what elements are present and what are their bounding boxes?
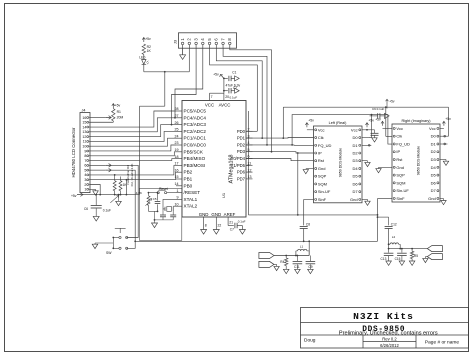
M2 left pin Sin-UF — [393, 188, 409, 193]
svg-text:GND: GND — [199, 212, 209, 217]
svg-text:Clk: Clk — [396, 134, 402, 139]
junction pin4 PC4 — [174, 117, 176, 119]
wire C8 down — [303, 229, 305, 242]
svg-text:0.1uF: 0.1uF — [230, 95, 238, 99]
ground at C7 — [239, 226, 245, 235]
svg-text:22: 22 — [218, 224, 222, 228]
M2 right pin D4 — [431, 165, 439, 170]
svg-text:PC5/ADC5: PC5/ADC5 — [184, 109, 207, 114]
junction C12 node — [388, 243, 390, 245]
M1 left pin Rst — [315, 158, 325, 163]
M1 left pin SQP — [315, 174, 327, 179]
U1 right pin 11 T1/PD5 — [231, 162, 253, 168]
inductor L1 — [296, 245, 309, 256]
ground reset cluster — [152, 223, 158, 228]
U1 left pin 27 PC4/ADC4 — [175, 114, 207, 120]
label 9850 DDS Module left — [339, 148, 343, 177]
J4 pin 5 — [84, 168, 90, 172]
M2 D0 wire right — [440, 135, 449, 137]
junction pot gnd — [118, 194, 120, 196]
junction filter R in — [388, 248, 390, 250]
label ATMega168 — [229, 155, 235, 184]
M1 left pin IP — [315, 150, 322, 155]
M2 right pin Gnd — [428, 196, 439, 201]
svg-text:6/26/2012: 6/26/2012 — [380, 343, 399, 348]
reset group box — [139, 188, 181, 240]
label J3 — [173, 39, 178, 44]
junction SW top — [112, 237, 114, 239]
note install either — [126, 165, 130, 185]
svg-text:Vcc: Vcc — [429, 126, 436, 131]
power +5v M1 right — [362, 119, 375, 131]
svg-text:+5v: +5v — [368, 119, 374, 123]
M1 right pin D4 — [352, 166, 360, 171]
svg-text:SW: SW — [106, 251, 112, 255]
label U1 — [221, 192, 226, 198]
junction C11 — [297, 255, 299, 257]
power +5v for LED — [142, 37, 151, 42]
svg-text:D2: D2 — [431, 149, 437, 154]
M2 right pin Vcc — [429, 126, 439, 131]
capacitor C5 — [153, 193, 161, 212]
M1 left pin Vcc — [315, 127, 325, 132]
junction R3 top — [148, 192, 150, 194]
wire overroute drop right D0 — [448, 107, 450, 136]
svg-text:Sin-UF: Sin-UF — [396, 188, 409, 193]
svg-text:9850 DDS Module: 9850 DDS Module — [417, 146, 421, 175]
U1 left pin 23 PC0/ADC0 — [175, 141, 207, 147]
wire loop to IP — [297, 153, 299, 216]
junction L2 right — [399, 248, 401, 250]
svg-text:SQP: SQP — [318, 174, 327, 179]
wire J3 pin5 to PD0 — [210, 49, 258, 132]
svg-text:D4: D4 — [352, 166, 358, 171]
wire J4 pin10 to U1 — [90, 138, 176, 146]
svg-text:PC2/ADC2: PC2/ADC2 — [184, 129, 207, 134]
U1 right pin 6 T0/PD4 — [231, 155, 253, 161]
page name — [425, 340, 459, 346]
ground right at C1 — [235, 76, 240, 81]
svg-text:SQM: SQM — [318, 181, 327, 186]
svg-text:LED: LED — [139, 55, 146, 59]
svg-text:D7: D7 — [431, 188, 437, 193]
wire PD2 to FQ_UD — [246, 144, 314, 146]
svg-text:PC1/ADC1: PC1/ADC1 — [184, 136, 207, 141]
J4 pin 9 — [84, 149, 90, 153]
M2 right pin D5 — [431, 173, 439, 178]
M1 left pin SinF — [315, 197, 327, 202]
wire filter rail right — [389, 248, 428, 250]
junction C5 bottom — [157, 211, 159, 213]
svg-text:Page # or name: Page # or name — [425, 340, 459, 346]
svg-text:Gnd: Gnd — [318, 166, 326, 171]
U1 pin22 GND — [216, 217, 221, 230]
junction xtal rail — [154, 219, 156, 221]
U1 left pin 19 PB5/SCK — [175, 148, 204, 154]
U1 left pin 18 PB4/MISO — [175, 155, 206, 161]
svg-text:16: 16 — [82, 116, 86, 120]
M1 right pin D2 — [352, 150, 360, 155]
svg-text:GND: GND — [211, 212, 221, 217]
svg-text:PD0: PD0 — [237, 129, 246, 134]
wire J4 pin3 to PB2 — [90, 172, 176, 180]
svg-text:23: 23 — [175, 141, 179, 145]
wire SW to ground — [95, 243, 113, 244]
M1 left pin Sin-UF — [315, 189, 331, 194]
svg-text:L2: L2 — [392, 235, 396, 239]
ground at R5 — [409, 261, 415, 265]
svg-text:SQP: SQP — [396, 173, 405, 178]
ground at R4 — [283, 269, 289, 273]
U1 left pin 24 PC1/ADC1 — [175, 134, 207, 140]
svg-text:18: 18 — [175, 155, 179, 159]
output flag right top — [427, 246, 442, 252]
capacitor C1 47uF — [224, 71, 237, 82]
capacitor C7 — [230, 220, 246, 232]
svg-text:17: 17 — [175, 162, 179, 166]
M2 left pin SQP — [393, 173, 405, 178]
wire J4 pin7 to PB4 — [90, 159, 176, 161]
wire J3 pin6 to PD1 bus — [216, 49, 262, 139]
wire overroute drop left D0 — [368, 115, 371, 138]
junction PD2 bus — [266, 144, 268, 146]
svg-text:16: 16 — [175, 168, 179, 172]
svg-text:IP: IP — [396, 149, 400, 154]
svg-text:D1: D1 — [431, 141, 437, 146]
ground at J3 pin1 — [180, 55, 186, 60]
wire M1 SinF down — [303, 199, 305, 225]
wire +5v riser — [139, 106, 141, 194]
wire J4 pin14 to U1 — [90, 111, 176, 127]
M2 right pin D7 — [431, 188, 439, 193]
junction C8 bus — [303, 240, 305, 242]
M1 left pin Clk — [315, 135, 324, 140]
M1 right pin D0 — [352, 135, 360, 140]
svg-text:PD3: PD3 — [237, 149, 246, 154]
LED D1 — [142, 55, 149, 72]
svg-text:+5v: +5v — [308, 119, 314, 123]
label Right (Imaginary) — [401, 119, 431, 123]
svg-text:7: 7 — [84, 159, 86, 163]
U1 bottom labels GND GND AREF — [199, 212, 236, 217]
capacitor C15 — [395, 249, 407, 262]
capacitor C9b — [306, 256, 316, 270]
junction LED wire — [164, 71, 166, 73]
capacitor C8 — [300, 222, 311, 228]
label C6 0.1uF — [84, 207, 111, 213]
svg-text:15: 15 — [175, 175, 179, 179]
wire XTAL2 — [173, 205, 176, 208]
svg-text:PC0/ADC0: PC0/ADC0 — [184, 143, 207, 148]
M2 left pin IP — [393, 149, 400, 154]
svg-text:Doug: Doug — [304, 338, 316, 344]
svg-text:10: 10 — [82, 144, 86, 148]
svg-text:VCC: VCC — [205, 102, 214, 107]
author Doug — [304, 338, 316, 344]
junction PD3 bus — [271, 151, 273, 153]
svg-text:R4: R4 — [280, 260, 284, 264]
ground at SW — [92, 244, 98, 248]
wire PD5 to loop — [246, 111, 249, 215]
svg-text:PD6: PD6 — [237, 170, 246, 175]
label 47uF 6.3v — [226, 83, 241, 87]
M2 right pin D3 — [431, 157, 439, 162]
svg-text:D3: D3 — [352, 158, 358, 163]
U1 right pin 4 PD2 — [237, 141, 253, 147]
svg-text:Vcc: Vcc — [351, 127, 358, 132]
ground right at C2 — [235, 88, 240, 93]
ground stub pot — [116, 195, 122, 206]
svg-text:14: 14 — [175, 182, 179, 186]
ground at right flag — [423, 258, 428, 262]
U1 right pin 12 PD6 — [237, 168, 253, 174]
junction R5 — [411, 248, 413, 250]
wire LED to pin2 horizontal — [144, 71, 190, 73]
M1 right pin D5 — [352, 174, 360, 179]
junction C15 — [401, 248, 403, 250]
U1 left pin 1 /RESET — [176, 189, 200, 195]
label 0.1uF C2 — [230, 95, 238, 99]
power +5v at C9 — [386, 99, 395, 108]
wire filter drop — [308, 241, 310, 255]
M1 SinF wire — [304, 198, 314, 200]
output flag left top — [259, 253, 274, 259]
M2 D3 ground — [440, 160, 449, 166]
svg-text:C6: C6 — [84, 207, 88, 211]
wire loop right — [377, 214, 379, 216]
date 6/26/2012 — [380, 343, 399, 348]
J4 pin 12 — [82, 135, 90, 139]
svg-text:1: 1 — [84, 188, 86, 192]
capacitor C6 — [91, 195, 102, 217]
junction clk overroute — [282, 137, 284, 139]
svg-text:Rst: Rst — [318, 158, 325, 163]
svg-text:T1/PD5: T1/PD5 — [231, 163, 246, 168]
svg-text:14: 14 — [82, 125, 86, 129]
ground right at C9 — [385, 113, 390, 118]
J4 pin15 wire — [90, 121, 113, 123]
svg-text:D0: D0 — [352, 135, 358, 140]
ground at C15 — [399, 261, 405, 265]
wire xtal gnd rail — [155, 211, 174, 223]
wire J4 pin6 to SW — [111, 165, 138, 237]
switch RESET — [150, 190, 177, 194]
svg-text:XTAL1: XTAL1 — [184, 197, 198, 202]
svg-text:C11: C11 — [294, 265, 300, 269]
wire J3 pin3 to PC3 — [172, 49, 197, 125]
M1 D3 ground — [362, 161, 370, 167]
M2 right pin D6 — [431, 180, 439, 185]
svg-text:FQ_UD: FQ_UD — [396, 141, 410, 146]
svg-text:Pot, 1K extra 3.3K: Pot, 1K extra 3.3K — [130, 164, 134, 187]
svg-text:D0: D0 — [431, 134, 437, 139]
J3 pin circles — [181, 42, 231, 48]
crystal X1 — [165, 207, 173, 212]
label J4 — [82, 109, 86, 113]
svg-text:AVCC: AVCC — [219, 102, 231, 107]
U1 right pin 3 PD1 — [237, 134, 253, 140]
J4 pin 16 — [82, 116, 90, 120]
svg-text:+5v: +5v — [145, 37, 151, 41]
J4 pin 1 — [84, 188, 90, 192]
note pot detail — [130, 164, 134, 187]
svg-text:10: 10 — [175, 202, 179, 206]
capacitor C11 — [293, 256, 303, 270]
U1 pin20 AVCC wire — [224, 78, 229, 100]
svg-text:C5: C5 — [153, 197, 157, 201]
svg-text:D5: D5 — [431, 173, 437, 178]
junction leftD0 overroute — [371, 114, 373, 116]
M1 D0 wire right — [362, 137, 368, 139]
junction rail pin2 — [99, 194, 101, 196]
wire PD3 to IP — [246, 152, 314, 153]
svg-text:12: 12 — [82, 135, 86, 139]
wire J4 pin2 to rail — [90, 185, 100, 195]
wire node to R1 rail — [140, 72, 165, 106]
title block frame — [301, 308, 469, 349]
svg-text:19: 19 — [175, 148, 179, 152]
power +5v M2 right — [440, 117, 451, 128]
M1 left pin FQ_UD — [315, 143, 332, 148]
wire C12 to filter — [388, 244, 390, 248]
M2 left pin Vcc — [393, 126, 403, 131]
wire J3 pin4 to PC4 — [175, 49, 203, 118]
junction SW bottom — [112, 247, 114, 249]
wire J4 pin8 to PB5 — [90, 152, 176, 156]
svg-text:IP: IP — [318, 150, 322, 155]
svg-text:26: 26 — [175, 121, 179, 125]
junction R4 — [285, 255, 287, 257]
svg-text:9: 9 — [177, 196, 179, 200]
svg-text:Rst: Rst — [396, 157, 403, 162]
M2 right pin D0 — [431, 134, 439, 139]
svg-text:PD7: PD7 — [237, 176, 246, 181]
U1 right pin 2 PD0 — [237, 128, 253, 134]
pot wiper arrow — [110, 195, 119, 203]
svg-text:15: 15 — [82, 121, 86, 125]
ground at pin8 — [201, 230, 207, 235]
wire J3 pin8 to PD3 bus — [230, 49, 272, 152]
wire PD4 to Rst — [246, 159, 314, 161]
M1 right pin Vcc — [351, 127, 361, 132]
M1 left pin SQM — [315, 181, 327, 186]
svg-text:C8: C8 — [306, 222, 310, 226]
wire filter rail left — [274, 255, 309, 257]
U1 right pin 5 PD3 — [237, 148, 253, 154]
svg-text:11: 11 — [83, 140, 87, 144]
svg-text:7: 7 — [211, 95, 213, 99]
svg-text:C13: C13 — [381, 257, 387, 261]
wire VCC to AVCC — [210, 92, 224, 94]
M1 right pin D6 — [352, 181, 360, 186]
wire right flag gnd — [425, 257, 427, 259]
J4 pin 13 — [82, 130, 90, 134]
label 9850 DDS Module right — [417, 146, 421, 175]
svg-text:PD2: PD2 — [237, 142, 246, 147]
svg-text:C9 0.1uF: C9 0.1uF — [372, 107, 385, 111]
svg-text:D6: D6 — [352, 181, 358, 186]
power +5v M2 left — [375, 117, 392, 128]
svg-text:J4: J4 — [82, 109, 86, 113]
switch SW contacts — [113, 236, 127, 249]
J3 pin1 ground wire — [182, 48, 184, 55]
U1 left pin 15 PB1 — [175, 175, 193, 181]
svg-text:24: 24 — [175, 134, 179, 138]
J4 pin 7 — [84, 159, 90, 163]
power +5v M1 left — [305, 119, 314, 130]
U1 left pin 9 XTAL1 — [176, 196, 198, 202]
resistor R1 pot — [112, 108, 115, 122]
svg-text:N3ZI Kits: N3ZI Kits — [353, 311, 414, 322]
svg-text:3: 3 — [84, 178, 86, 182]
svg-text:U1: U1 — [221, 192, 226, 198]
svg-text:+5v: +5v — [445, 117, 451, 121]
junction PD1 bus — [261, 137, 263, 139]
svg-text:R1: R1 — [117, 110, 121, 114]
connector J3 — [179, 33, 237, 48]
U1 left pin 25 PC2/ADC2 — [175, 128, 207, 134]
resistor R4 — [280, 256, 288, 270]
wire J3 pin7 to PD2 bus — [223, 49, 267, 145]
wire J4 pin4 to PB3 — [90, 165, 176, 175]
J4 pin 8 — [84, 154, 90, 158]
J4 pin16 wiper wire — [90, 116, 111, 120]
title text N3ZI Kits — [353, 311, 414, 322]
junction AVCC +5v — [223, 78, 225, 80]
svg-text:PB4/MISO: PB4/MISO — [184, 156, 206, 161]
ground at C10 — [372, 138, 377, 142]
IC U1 ATmega168 body — [182, 101, 246, 218]
svg-text:PC4/ADC4: PC4/ADC4 — [184, 115, 207, 120]
svg-text:SinF: SinF — [318, 197, 327, 202]
junction overroute drop — [385, 106, 387, 108]
svg-text:6: 6 — [84, 164, 86, 168]
svg-text:R5: R5 — [414, 254, 418, 258]
label LED — [139, 55, 146, 59]
label R1 20M — [117, 110, 124, 119]
svg-text:13: 13 — [82, 130, 86, 134]
svg-text:D3: D3 — [431, 157, 437, 162]
ground at pin22 — [213, 230, 219, 235]
U1 pin8 GND — [204, 217, 207, 230]
wire PD0 row — [246, 130, 257, 132]
svg-text:SinF: SinF — [396, 196, 405, 201]
svg-text:+5v: +5v — [115, 103, 121, 107]
svg-text:L1: L1 — [300, 245, 304, 249]
ground at C13 — [386, 261, 392, 265]
label R2 1K — [147, 45, 152, 53]
svg-text:4.7K: 4.7K — [136, 191, 142, 195]
M2 right pin D1 — [431, 141, 439, 146]
svg-text:FQ_UD: FQ_UD — [318, 143, 332, 148]
svg-text:Gnd: Gnd — [428, 196, 436, 201]
M1 right pin Gnd — [350, 197, 361, 202]
svg-text:Left (Real): Left (Real) — [329, 121, 347, 125]
wire overroute drop right Clk — [386, 107, 392, 136]
label HD44780 LCD Connector — [71, 127, 76, 178]
svg-text:D1: D1 — [352, 143, 358, 148]
svg-text:D5: D5 — [352, 174, 358, 179]
svg-text:Rev 0.2: Rev 0.2 — [382, 336, 397, 341]
M2 left pin SinF — [393, 196, 405, 201]
wire +5v rail — [83, 194, 140, 196]
J4 pin 10 — [82, 144, 90, 148]
svg-text:+5v: +5v — [389, 99, 395, 103]
label 1K pot — [123, 183, 128, 187]
capacitor C2 0.1uF — [224, 86, 237, 93]
svg-text:HD44780 LCD Connector: HD44780 LCD Connector — [71, 127, 76, 178]
svg-text:Gnd: Gnd — [396, 165, 404, 170]
